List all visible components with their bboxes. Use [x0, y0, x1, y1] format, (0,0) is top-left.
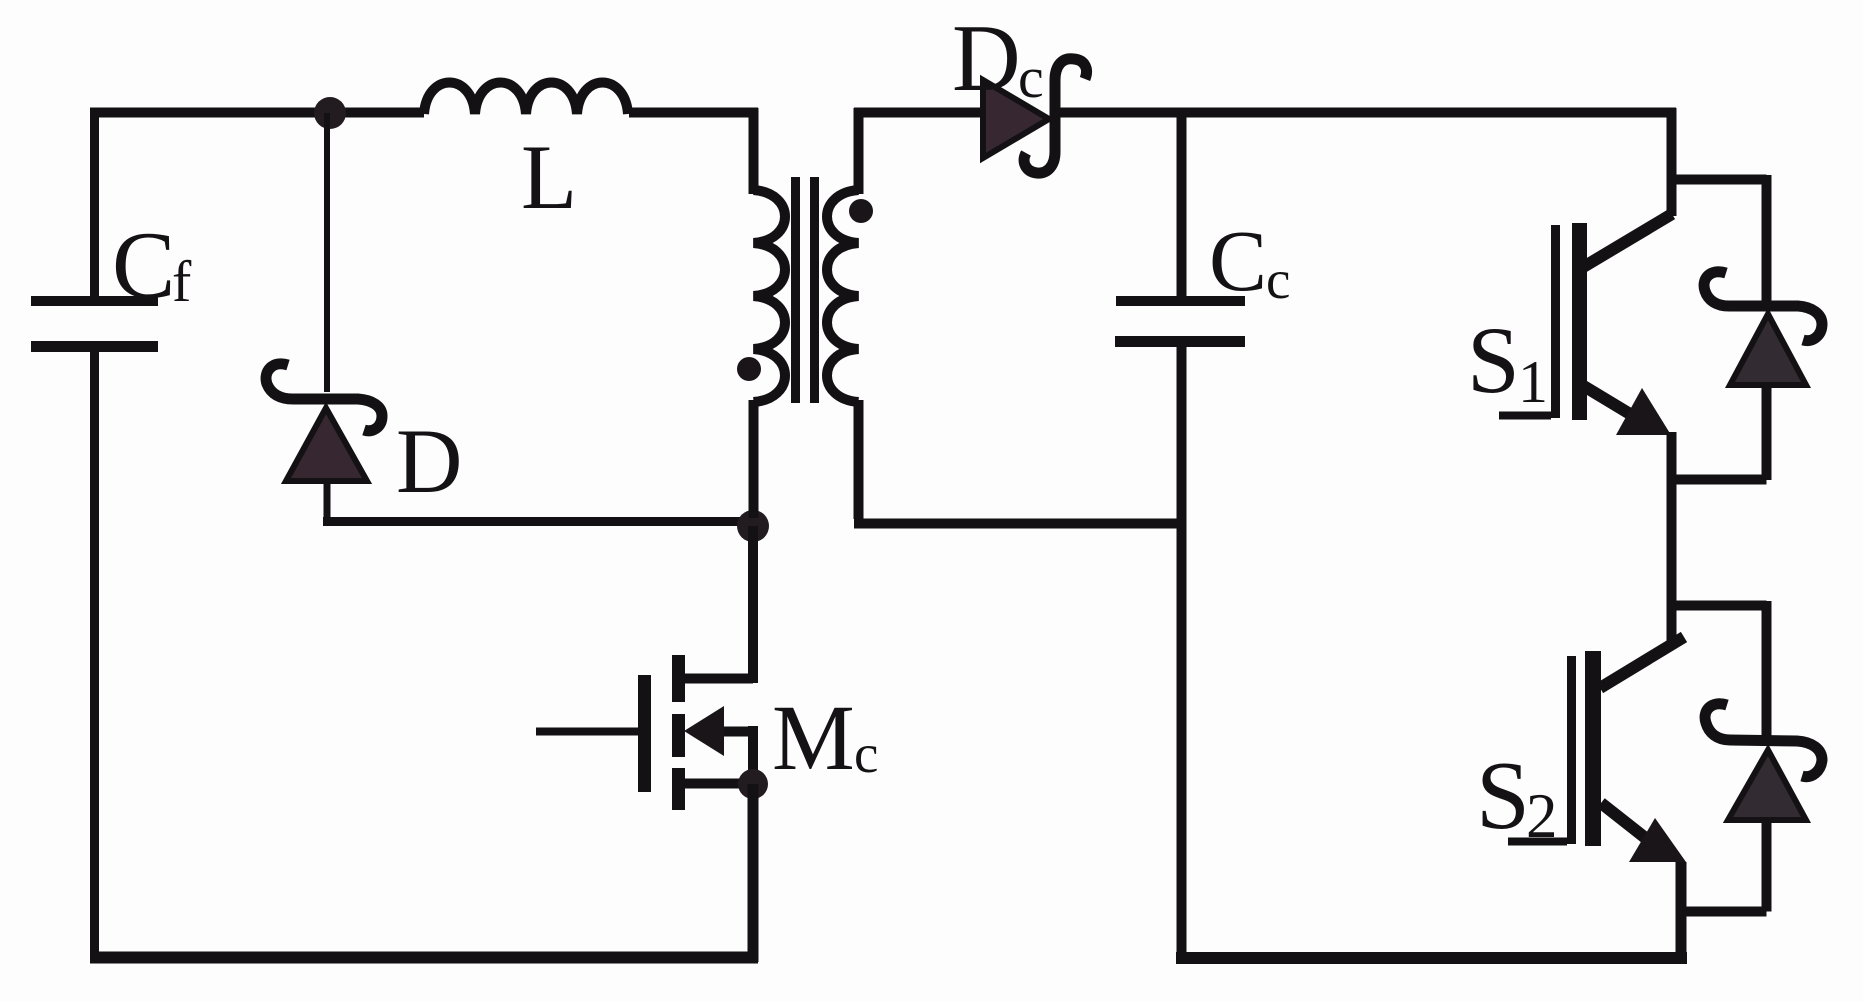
- wire Mc drain vertical from center node: [680, 526, 753, 683]
- body arrow of Mc: [684, 706, 724, 756]
- emitter arrow of S2: [1629, 818, 1686, 862]
- wire D branch vertical (anode lead from top node): [324, 113, 330, 392]
- transformer core lines: [791, 177, 800, 403]
- wire top-left horizontal (input top rail): [90, 108, 424, 118]
- phase dot secondary: [849, 199, 873, 223]
- cathode squiggle of DS2: [1705, 704, 1822, 777]
- anode triangle of DS2: [1728, 750, 1806, 820]
- wire DS1 bottom branch: [1671, 383, 1767, 480]
- gate plate of Mc: [638, 675, 651, 792]
- wire bottom-right rail: [1176, 952, 1687, 964]
- inductor L: [424, 83, 628, 229]
- svg-text:f: f: [172, 249, 192, 314]
- wire D return horizontal to center node: [323, 517, 753, 526]
- svg-text:c: c: [854, 723, 878, 784]
- wire top middle (L to transformer primary): [629, 108, 758, 118]
- svg-text:D: D: [952, 5, 1021, 111]
- wire bottom-left rail: [90, 952, 758, 964]
- wire D bottom lead: [324, 478, 331, 521]
- svg-text:2: 2: [1526, 781, 1558, 851]
- body bar of S2: [1585, 651, 1601, 846]
- node junction of L / D branch (dot): [314, 97, 346, 129]
- gate lead of S1: [1499, 412, 1551, 420]
- svg-text:M: M: [772, 687, 855, 790]
- wire DS2 top branch: [1671, 601, 1767, 737]
- wire left vertical bottom (Cf bottom lead): [90, 352, 99, 962]
- cathode squiggle of DS1: [1704, 272, 1822, 341]
- anode triangle of Dc: [983, 80, 1049, 158]
- transformer T primary winding: [754, 190, 786, 402]
- capacitor Cf: [31, 212, 192, 352]
- diode Dc: [952, 5, 1087, 173]
- transistor S1 (IGBT): [1467, 214, 1672, 435]
- channel segment top of Mc: [672, 655, 685, 702]
- svg-text:c: c: [1266, 249, 1290, 310]
- wire secondary top lead: [854, 108, 864, 194]
- phase dot primary: [737, 357, 761, 381]
- emitter lead of S2: [1601, 803, 1648, 840]
- wire secondary top horizontal to Dc anode: [854, 108, 985, 118]
- body-to-source wire of Mc: [748, 726, 758, 784]
- svg-text:S: S: [1476, 742, 1530, 849]
- wire DS1 top branch: [1671, 175, 1767, 302]
- transistor Mc (MOSFET): [536, 655, 878, 810]
- body bar of S1: [1572, 223, 1587, 420]
- wire S2 emitter vertical to bottom rail: [1676, 862, 1687, 962]
- diode DS1 (anti-parallel with S1): [1671, 175, 1822, 480]
- drain lead of Mc: [680, 674, 753, 684]
- transformer T secondary winding: [827, 190, 859, 402]
- wire secondary bottom lead and return to Cc branch: [854, 400, 1181, 524]
- body lead of Mc: [718, 727, 753, 737]
- emitter lead of S1: [1582, 385, 1640, 420]
- svg-text:1: 1: [1518, 349, 1548, 415]
- gate lead of Mc: [536, 728, 638, 736]
- node Mc source junction (dot): [738, 769, 768, 799]
- cathode squiggle of Dc: [1024, 59, 1086, 173]
- diode DS2 (anti-parallel with S2): [1681, 704, 1822, 912]
- wire primary top lead: [749, 108, 759, 194]
- gate lead of S2: [1508, 838, 1567, 846]
- svg-text:C: C: [112, 212, 175, 318]
- wire S1 emitter to S2 collector (mid rail): [1667, 432, 1677, 641]
- capacitor Cc: [1115, 212, 1290, 347]
- source lead of Mc: [680, 779, 753, 789]
- node primary-bottom / Mc drain junction (dot): [737, 510, 769, 542]
- channel segment bottom of Mc: [672, 768, 685, 810]
- collector lead of S2: [1600, 637, 1684, 688]
- gate bar of S2: [1567, 656, 1576, 844]
- anode triangle of DS1: [1730, 314, 1806, 385]
- wire Cc branch top lead: [1177, 108, 1187, 298]
- wire left vertical top (Cf top lead): [90, 108, 99, 298]
- svg-text:c: c: [1018, 45, 1044, 110]
- svg-text:C: C: [1209, 212, 1267, 309]
- cathode squiggle of D: [266, 364, 382, 431]
- wire top right rail (Dc to S1 collector): [1056, 108, 1676, 118]
- anode triangle of D: [286, 408, 367, 481]
- svg-text:S: S: [1467, 307, 1520, 413]
- gate bar of S1: [1551, 225, 1560, 418]
- wire Cc bottom lead to bottom-right rail: [1177, 347, 1187, 962]
- wire Mc source vertical to bottom rail: [748, 784, 759, 962]
- wire primary bottom lead: [749, 400, 759, 518]
- emitter arrow of S1: [1616, 388, 1671, 435]
- svg-text:D: D: [396, 410, 462, 512]
- wire S1 collector vertical: [1667, 108, 1677, 216]
- wire DS2 bottom branch: [1681, 818, 1767, 912]
- transistor S2 (IGBT): [1476, 637, 1686, 862]
- svg-text:L: L: [521, 126, 577, 228]
- collector lead of S1: [1580, 214, 1672, 269]
- diode D: [266, 364, 462, 512]
- channel segment middle of Mc: [672, 714, 685, 757]
